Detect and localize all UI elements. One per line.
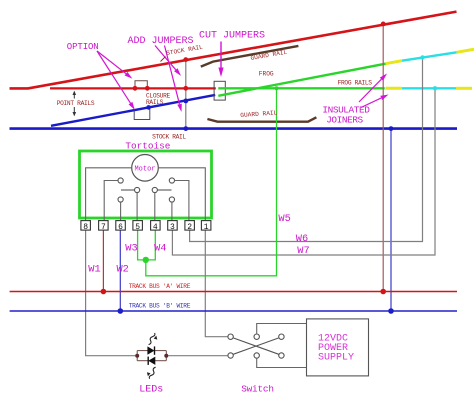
POINT RAILS arrow down: [73, 107, 75, 113]
terminal 3: [168, 221, 178, 232]
contact arm left: [121, 189, 135, 191]
switch circle bottom-right: [279, 353, 284, 358]
svg-text:ADD JUMPERS: ADD JUMPERS: [128, 36, 194, 47]
svg-text:W3: W3: [125, 242, 137, 254]
node: blue dot on bus B at feeder: [388, 308, 394, 314]
node: red dot on bus A at feeder: [380, 289, 386, 295]
svg-text:LEDs: LEDs: [139, 385, 163, 396]
node: blue dot on stock rail at feeder: [389, 126, 394, 131]
svg-text:5: 5: [135, 223, 140, 232]
svg-text:RAILS: RAILS: [146, 99, 164, 106]
terminal 2: [185, 221, 195, 232]
magenta leader: OPTION arrow 1: [97, 42, 389, 112]
wire: switch top pole to supply: [257, 324, 307, 335]
magenta leader: ADD JUMPERS arrow 2: [165, 46, 180, 105]
node: blue dot bus B: [118, 308, 124, 314]
node: red dot on rail at feeder: [381, 22, 386, 27]
track bus B wire: [10, 310, 457, 312]
svg-text:W6: W6: [296, 233, 308, 245]
node: LED left dot: [135, 354, 139, 358]
wire: right pivot to terminal 4: [154, 193, 156, 221]
rail: blue point rail: [51, 95, 215, 126]
rail: red diverging stock rail: [10, 12, 457, 89]
insulated joiner yellow (diverging, left): [386, 61, 403, 64]
switch S1 DPDT: [228, 324, 307, 368]
wire: motor to terminal 1: [158, 168, 205, 221]
rail: cyan straight rail beyond joiner: [402, 87, 456, 89]
power supply PS1 box: [307, 319, 369, 376]
wire: lower left contact to terminal 6: [120, 202, 122, 220]
terminal 7: [99, 221, 109, 232]
contact: right throw upper circle: [169, 178, 174, 183]
wire W6: terminal 2 to upper cyan rail: [190, 58, 423, 242]
contact: left throw lower circle: [118, 197, 123, 202]
svg-text:TRACK BUS 'B' WIRE: TRACK BUS 'B' WIRE: [129, 303, 191, 310]
svg-text:W1: W1: [88, 264, 100, 276]
contact: right pivot circle: [152, 187, 157, 192]
contact: left pivot circle: [135, 187, 140, 192]
svg-text:W2: W2: [117, 264, 129, 276]
rail: green frog rail straight: [218, 87, 384, 89]
svg-text:6: 6: [118, 223, 123, 232]
contact: right throw lower circle: [169, 197, 174, 202]
svg-text:3: 3: [170, 223, 175, 232]
svg-text:1: 1: [204, 223, 209, 232]
svg-text:Switch: Switch: [241, 384, 274, 395]
insulated joiner yellow (straight, right): [456, 87, 472, 90]
Tortoise outline box: [80, 151, 212, 218]
node: red dot on closure rail: [183, 86, 188, 91]
switch cross wire 2: [233, 338, 279, 354]
svg-text:W7: W7: [297, 245, 309, 257]
terminal 6: [116, 221, 126, 232]
wire W1: terminal 8 down to LEDs: [86, 230, 136, 356]
switch circle top-right: [279, 334, 284, 339]
switch circle bottom-left: [228, 353, 233, 358]
svg-text:OPTION: OPTION: [67, 42, 99, 52]
switch circle bottom-middle: [254, 353, 259, 358]
switch circle top-middle: [254, 334, 259, 339]
svg-text:FROG RAILS: FROG RAILS: [338, 80, 373, 87]
wire: left pivot to terminal 5: [136, 193, 138, 221]
svg-text:Motor: Motor: [134, 165, 155, 173]
rail: green frog rail diverging: [218, 64, 385, 96]
terminal 8: [81, 221, 91, 232]
contact arm right: [157, 189, 171, 191]
svg-text:2: 2: [187, 223, 192, 232]
node: red dot on diverging stock rail: [183, 57, 188, 62]
wire W5: terminals 4+5 to frog: [138, 230, 146, 260]
wire: upper left contact to terminal 7: [104, 181, 118, 221]
LED light arrow top: [149, 333, 155, 345]
svg-text:8: 8: [83, 223, 88, 232]
svg-text:Tortoise: Tortoise: [125, 140, 170, 151]
node: blue dot on point rail: [183, 99, 188, 104]
svg-text:W4: W4: [154, 242, 166, 254]
node: red jumper dot left: [133, 86, 138, 91]
wire: upper right contact to terminal 2: [175, 181, 189, 221]
wire: blue feeder from straight stock rail to track bus B: [390, 129, 392, 311]
insulated joiner yellow (straight, left): [386, 87, 403, 90]
svg-text:JOINERS: JOINERS: [326, 115, 363, 126]
jumper notch on red closure rail: [135, 81, 147, 88]
magenta leader: OPTION arrow 2: [97, 51, 131, 103]
wire: dark red feeder from diverging stock rail to track bus A: [382, 24, 384, 292]
jumper notch on blue point rail: [134, 108, 150, 120]
node: LED right dot: [164, 354, 168, 358]
wire: LEDs to switch: [168, 355, 228, 357]
svg-text:POINT RAILS: POINT RAILS: [57, 100, 95, 107]
insulated joiner yellow (diverging, right): [457, 49, 474, 52]
node: blue jumper dot: [146, 105, 151, 110]
wire: gray rail jumper at points: [185, 60, 187, 129]
magenta leader: ADD JUMPERS arrow 1: [155, 46, 176, 70]
LED D1 triangle right: [147, 346, 154, 354]
leader tick for STOCK RAIL: [161, 57, 166, 62]
magenta leader: CUT JUMPERS arrow: [220, 42, 222, 69]
LED pair D1 D2: [135, 333, 168, 379]
wire W2: terminal 6 to track bus B: [119, 230, 121, 311]
svg-text:W5: W5: [278, 213, 290, 225]
terminal 5: [133, 221, 143, 232]
svg-text:SUPPLY: SUPPLY: [318, 352, 354, 363]
POINT RAILS arrow up: [73, 91, 77, 117]
wire W7: terminal 3 to lower cyan rail: [172, 88, 435, 255]
svg-text:TRACK BUS 'A' WIRE: TRACK BUS 'A' WIRE: [129, 283, 191, 290]
wire: motor to terminal 8: [86, 168, 132, 221]
node: green dot on frog rail: [275, 86, 279, 90]
magenta leader: INSULATED JOINERS arrow 2: [361, 98, 381, 108]
switch cross wire 1: [233, 338, 279, 354]
node: red jumper dot right: [145, 86, 150, 91]
track bus A wire: [10, 291, 457, 293]
cut jumpers rectangle: [214, 81, 225, 100]
svg-text:CUT JUMPERS: CUT JUMPERS: [199, 31, 265, 42]
LED D2 triangle left: [148, 357, 155, 365]
motor M1 circle: [132, 155, 159, 182]
wire: lower right contact to terminal 3: [171, 202, 173, 220]
node: cyan dot upper rail: [420, 55, 424, 59]
rail: cyan diverging rail beyond joiner: [402, 52, 457, 60]
node: red dot bus A: [101, 289, 107, 295]
contact: left throw upper circle: [118, 178, 123, 183]
wire: switch bottom pole to supply: [257, 358, 307, 367]
wire: terminal 1 to switch: [205, 230, 228, 337]
rail: red closure rail (straight route): [50, 87, 216, 89]
node: green junction dot: [143, 257, 149, 263]
svg-text:4: 4: [153, 223, 158, 232]
guard rail upper: [201, 46, 299, 67]
node: cyan dot lower rail: [433, 86, 437, 90]
svg-text:7: 7: [101, 223, 106, 232]
node: blue dot on stock rail: [183, 126, 188, 131]
guard rail lower: [207, 117, 316, 121]
switch circle top-left: [228, 334, 233, 339]
terminal 4: [151, 221, 161, 232]
wire: terminal 7 to track bus A: [102, 230, 104, 292]
LED light arrow bottom: [149, 367, 155, 379]
rail: blue straight stock rail: [10, 127, 458, 130]
terminal 1: [201, 221, 211, 232]
svg-text:FROG: FROG: [259, 71, 274, 78]
magenta leader: INSULATED JOINERS arrow 1: [359, 79, 381, 102]
